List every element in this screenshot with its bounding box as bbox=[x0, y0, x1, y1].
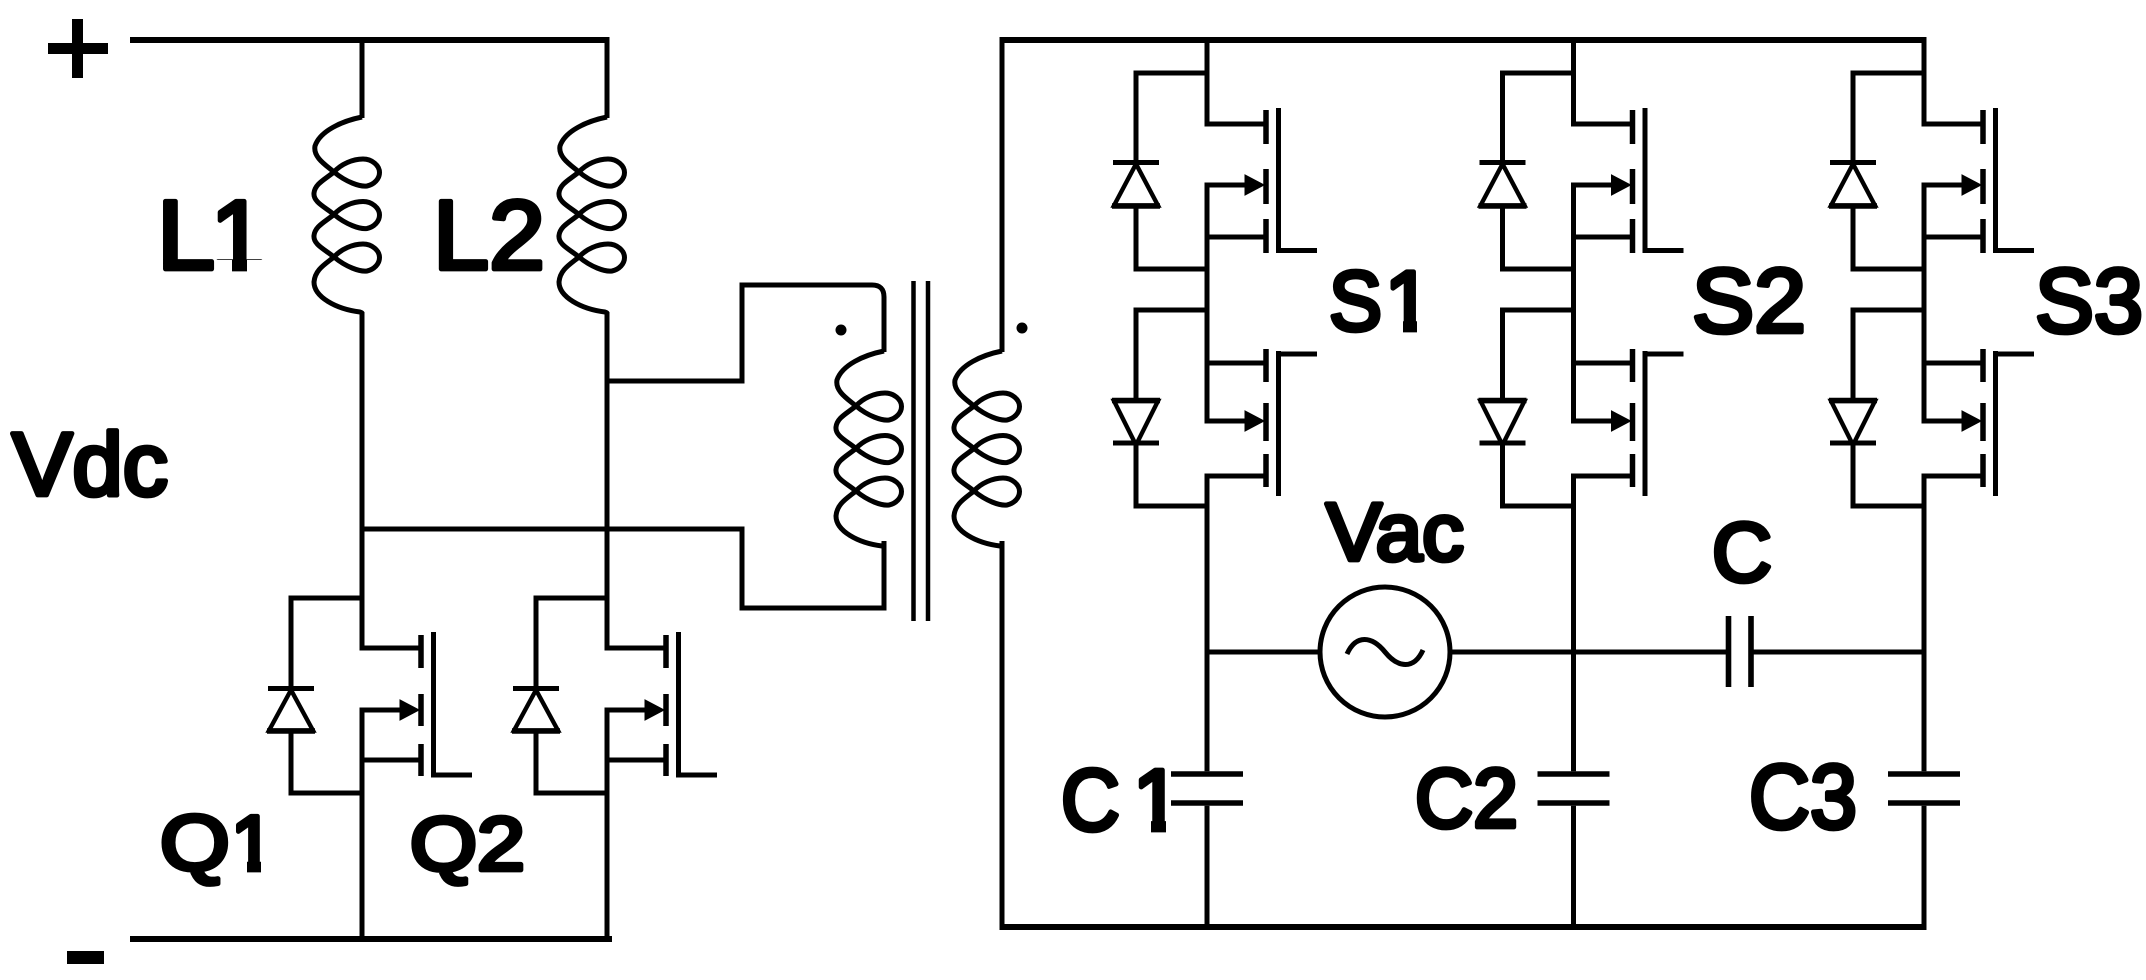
label C bbox=[1712, 505, 1772, 599]
label Vdc bbox=[12, 414, 168, 514]
wire bottom-left negative rail bbox=[130, 936, 612, 942]
wire S2 leg to bottom rail bbox=[1571, 806, 1576, 930]
transistor S2 lower MOSFET bbox=[1574, 349, 1684, 496]
capacitor C1 bbox=[1171, 774, 1243, 803]
inductor L1 bbox=[314, 117, 380, 313]
transistor Q2 bbox=[607, 632, 717, 777]
wire Vac to C bbox=[1448, 650, 1726, 655]
plus terminal symbol bbox=[48, 19, 108, 78]
svg-text:C3: C3 bbox=[1749, 747, 1857, 848]
svg-text:C: C bbox=[1712, 505, 1772, 599]
wire transformer secondary top lead bbox=[1000, 37, 1005, 352]
label Q2 bbox=[410, 802, 525, 887]
transformer primary winding bbox=[836, 351, 902, 546]
svg-text:L: L bbox=[157, 180, 215, 290]
diode S3 lower body diode bbox=[1829, 310, 1924, 506]
label Q1 bbox=[160, 799, 274, 887]
wire L1 top lead bbox=[360, 37, 365, 118]
transistor Q1 bbox=[362, 632, 472, 777]
diode S3 upper body diode bbox=[1829, 73, 1924, 269]
wire L1 bottom lead to Q1 drain bbox=[360, 312, 365, 651]
label L2 bbox=[433, 180, 545, 290]
svg-text:Vac: Vac bbox=[1326, 487, 1464, 578]
wire S3 leg lower bbox=[1922, 474, 1927, 772]
svg-text:L2: L2 bbox=[433, 180, 545, 290]
label C2 bbox=[1415, 752, 1518, 845]
wire S2 leg lower bbox=[1571, 474, 1576, 772]
transformer secondary polarity dot bbox=[1017, 323, 1028, 334]
wire L2 top lead bbox=[605, 37, 610, 118]
wire L2 bottom lead to Q2 drain bbox=[605, 312, 610, 651]
wire S2 mid node bbox=[1571, 183, 1576, 424]
wire top-left positive rail bbox=[130, 37, 609, 43]
svg-text:1: 1 bbox=[211, 180, 266, 290]
wire S1 mid node bbox=[1205, 183, 1210, 424]
diode D-Q1 (body diode of Q1) bbox=[267, 598, 362, 793]
diode S2 upper body diode bbox=[1479, 73, 1574, 269]
ac source Vac bbox=[1320, 587, 1450, 717]
label S2 bbox=[1692, 251, 1806, 352]
wire bottom rail (secondary return) bbox=[1000, 924, 1927, 930]
svg-text:S: S bbox=[1329, 253, 1382, 348]
label S3 bbox=[2035, 251, 2143, 352]
label C1 bbox=[1061, 752, 1181, 849]
svg-text:Vdc: Vdc bbox=[12, 414, 168, 514]
svg-text:S3: S3 bbox=[2035, 251, 2143, 352]
wire S1 leg to bottom rail bbox=[1205, 806, 1210, 930]
label L1 bbox=[157, 180, 265, 290]
wire transformer secondary bottom lead bbox=[1000, 541, 1005, 930]
wire transformer primary bottom connection bbox=[742, 527, 884, 609]
wire Vac left lead bbox=[1205, 650, 1323, 655]
capacitor C2 bbox=[1538, 774, 1610, 803]
transistor S3 upper MOSFET bbox=[1924, 108, 2034, 253]
svg-text:Q: Q bbox=[160, 799, 230, 887]
svg-text:S2: S2 bbox=[1692, 251, 1806, 352]
wire S3 leg upper bbox=[1922, 40, 1927, 127]
svg-text:C2: C2 bbox=[1415, 752, 1518, 845]
transistor S3 lower MOSFET bbox=[1924, 349, 2034, 496]
wire top rail (secondary positive) bbox=[1000, 37, 1927, 43]
wire transformer primary bottom to Q1 node bbox=[362, 527, 742, 532]
label Vac bbox=[1326, 487, 1464, 578]
diode D-Q2 (body diode of Q2) bbox=[512, 598, 607, 793]
wire S3 leg to bottom rail bbox=[1922, 806, 1927, 930]
wire Q2 source to negative rail bbox=[605, 708, 610, 943]
capacitor C3 bbox=[1888, 774, 1960, 803]
wire C to S3 leg bbox=[1754, 650, 1927, 655]
wire S1 leg lower bbox=[1205, 474, 1210, 772]
transformer secondary winding bbox=[954, 351, 1020, 546]
label S1 bbox=[1329, 253, 1432, 348]
diode S2 lower body diode bbox=[1479, 310, 1574, 506]
wire S2 leg upper bbox=[1571, 40, 1576, 127]
wire transformer primary top connection bbox=[607, 285, 884, 381]
transformer core bbox=[914, 281, 929, 621]
minus terminal symbol bbox=[67, 951, 104, 964]
svg-text:Q2: Q2 bbox=[410, 802, 525, 887]
transistor S1 upper MOSFET bbox=[1207, 108, 1317, 253]
capacitor C bbox=[1729, 616, 1752, 687]
wire S3 mid node bbox=[1922, 183, 1927, 424]
svg-text:C: C bbox=[1061, 752, 1120, 849]
diode S1 lower body diode bbox=[1112, 310, 1207, 506]
transformer primary polarity dot bbox=[836, 325, 847, 336]
wire S1 leg upper bbox=[1205, 40, 1210, 127]
wire Q1 source to negative rail bbox=[360, 708, 365, 943]
svg-text:1: 1 bbox=[1133, 752, 1182, 849]
label C3 bbox=[1749, 747, 1857, 848]
diode S1 upper body diode bbox=[1112, 73, 1207, 269]
transistor S2 upper MOSFET bbox=[1574, 108, 1684, 253]
transistor S1 lower MOSFET bbox=[1207, 349, 1317, 496]
inductor L2 bbox=[559, 117, 625, 313]
